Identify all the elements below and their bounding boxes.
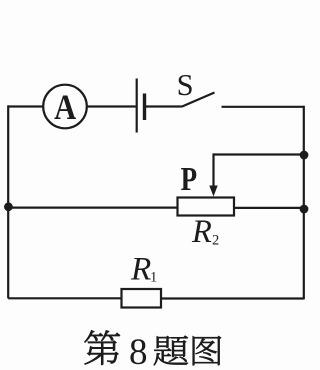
ammeter A1 label A [54,88,76,128]
caption char 第 [85,330,120,364]
junction dot left rail / middle wire [4,202,13,211]
resistor R1 body box [122,289,162,308]
switch S lever [182,93,215,107]
wire bottom right (R1 to right rail) [161,297,304,299]
caption char 题 [154,336,188,366]
svg-text:1: 1 [150,269,157,285]
svg-text:P: P [181,160,197,198]
battery short negative plate [143,94,146,121]
wire battery to switch pivot [146,105,182,107]
wire right rail vertical [303,106,305,300]
wire left rail vertical [7,105,9,298]
caption char 图 [193,336,221,365]
wire switch contact to right rail [222,106,304,108]
rheostat R2 body box [178,198,235,216]
junction dot right rail / slider tap [300,151,309,160]
svg-text:A: A [54,88,76,128]
ammeter A1 circle [43,85,87,129]
svg-text:S: S [177,68,194,102]
wire ammeter to battery [87,105,136,107]
svg-text:R: R [191,214,212,250]
slider label P [181,160,197,198]
svg-text:8: 8 [129,332,148,370]
svg-text:2: 2 [212,233,219,249]
battery long positive plate [136,79,138,133]
wire slider tap horizontal [214,153,304,155]
rheostat slider vertical wire [212,153,214,186]
svg-text:R: R [130,250,151,287]
wire middle left (left rail to R2 box) [8,207,177,209]
wire bottom left (left rail to R1) [8,297,121,299]
junction dot right rail / middle wire [300,205,309,214]
rheostat slider arrowhead P [209,186,217,197]
wire middle right (R2 box to right rail) [234,207,304,209]
wire top-left from left rail to ammeter [8,105,44,107]
